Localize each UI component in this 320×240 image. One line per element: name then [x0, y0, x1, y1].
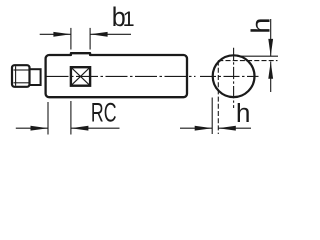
- wire RC extension lines: [48, 101, 71, 135]
- node neck: [30, 69, 41, 85]
- wire centerline of shaft (side view): [47, 75, 196, 77]
- wire end-view vertical centerline: [233, 48, 235, 108]
- svg-text:1: 1: [123, 7, 135, 31]
- wire bottom h dimension line with arrows: [180, 126, 251, 131]
- wire circle top tangent extension: [237, 55, 278, 57]
- wire hidden square top edge (dashed): [218, 60, 277, 62]
- wire b1 extension lines: [71, 28, 90, 50]
- svg-text:h: h: [246, 18, 275, 34]
- node end-view circle: [213, 55, 255, 97]
- node shaft body: [46, 53, 187, 97]
- node threaded stub: [12, 65, 30, 87]
- wire b1 dimension line with arrows: [40, 32, 131, 37]
- wire RC dimension line with arrows: [16, 126, 120, 131]
- svg-text:RC: RC: [91, 97, 117, 128]
- svg-text:h: h: [236, 98, 251, 128]
- wire vertical h dimension line with arrows: [268, 19, 273, 92]
- wire end-view horizontal centerline: [200, 75, 259, 77]
- wire hidden square left edge (dashed): [217, 61, 219, 134]
- wire circle left tangent extension: [211, 98, 213, 135]
- node square section marker: [71, 67, 90, 86]
